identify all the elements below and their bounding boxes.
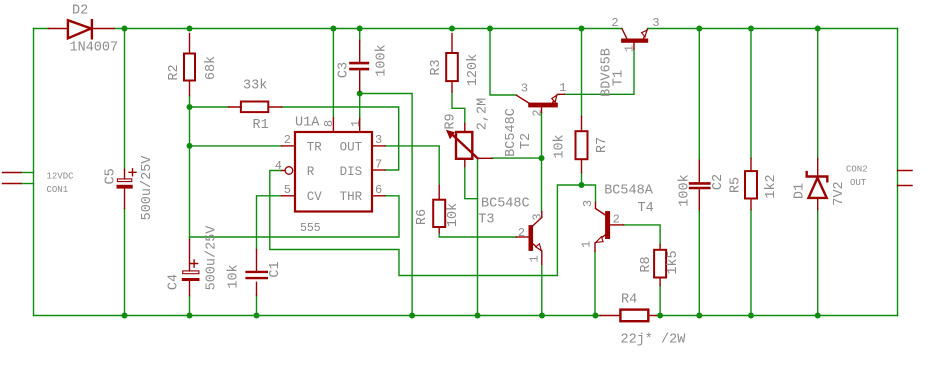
- diode D2: [49, 20, 115, 38]
- svg-text:500u/25V: 500u/25V: [140, 155, 155, 221]
- wire R7 column: [581, 29, 583, 186]
- svg-text:1: 1: [528, 255, 542, 262]
- connector CON1 pin 1: [3, 172, 22, 174]
- junction at 189,145.4: [187, 143, 193, 149]
- svg-text:10k: 10k: [227, 264, 242, 288]
- resistor R3: [446, 34, 458, 92]
- junction at 189,106.5: [187, 104, 193, 110]
- wire R3 to R9 jog: [452, 92, 465, 124]
- svg-text:3: 3: [521, 82, 528, 96]
- wire R6 bottom to T3 base: [439, 233, 516, 238]
- junction at 477,315: [475, 313, 481, 319]
- wire TR line: [190, 145, 282, 147]
- svg-text:BC548A: BC548A: [604, 184, 654, 199]
- wire C5 column: [124, 29, 126, 316]
- wire R5 column: [750, 29, 752, 316]
- wire R7 bottom node to T4 collector: [582, 185, 596, 203]
- svg-text:C4: C4: [167, 274, 182, 290]
- svg-text:100k: 100k: [678, 174, 693, 206]
- wire OUT to R6: [385, 146, 439, 186]
- wire C3 node to ground column: [360, 94, 412, 316]
- svg-text:3: 3: [531, 213, 545, 220]
- svg-text:3: 3: [375, 133, 382, 147]
- wire CON1 pin2 to column: [21, 183, 34, 185]
- svg-text:C5: C5: [104, 168, 119, 184]
- svg-text:8: 8: [322, 120, 336, 127]
- svg-text:1k5: 1k5: [666, 250, 681, 274]
- pin 2 TR stub: [282, 145, 295, 147]
- wire 555 pin1 to C3 node: [359, 91, 361, 118]
- resistor R4: [600, 310, 656, 322]
- svg-text:D1: D1: [793, 183, 808, 199]
- wire T4 base to R8: [624, 225, 661, 245]
- transistor T2 BC548C: [517, 94, 565, 112]
- svg-text:OUT: OUT: [340, 141, 363, 155]
- junction at 541.5,315: [539, 313, 545, 319]
- svg-text:2: 2: [611, 16, 618, 30]
- capacitor C1: [247, 250, 267, 296]
- wire T4 emitter to ground rail: [594, 252, 596, 316]
- svg-text:CON2: CON2: [846, 165, 868, 175]
- resistor R8: [654, 245, 666, 286]
- net GND bottom rail: [34, 315, 898, 317]
- svg-text:555: 555: [300, 222, 321, 235]
- junction at 750.5,315: [748, 313, 754, 319]
- pin 6 THR stub: [372, 195, 385, 197]
- svg-text:R9: R9: [444, 113, 459, 129]
- svg-text:TR: TR: [307, 141, 323, 155]
- connector CON2 pin 1: [898, 170, 913, 172]
- svg-text:1: 1: [559, 81, 566, 95]
- svg-text:120k: 120k: [466, 54, 481, 86]
- svg-text:5: 5: [284, 183, 291, 197]
- pin 5 CV stub: [282, 195, 295, 197]
- svg-text:BC548C: BC548C: [481, 197, 530, 212]
- junction at 124,315: [122, 313, 128, 319]
- junction at 256,315: [254, 313, 260, 319]
- svg-text:C1: C1: [268, 261, 283, 277]
- resistor R1: [229, 102, 282, 113]
- pin 7 DIS stub: [372, 169, 385, 171]
- junction at 817.2,28: [815, 26, 821, 32]
- wire T2 collector to rail: [490, 29, 517, 96]
- junction at 659.6,315: [657, 313, 663, 319]
- svg-text:68k: 68k: [204, 56, 219, 80]
- junction at 698.8,28: [696, 26, 702, 32]
- connector CON1 pin 2: [3, 183, 22, 185]
- svg-text:2: 2: [518, 226, 525, 240]
- svg-text:BC548C: BC548C: [504, 108, 519, 157]
- wire T2 base down to T3 collector: [541, 113, 543, 212]
- junction at 817.2,315: [815, 313, 821, 319]
- svg-text:R4: R4: [621, 293, 637, 308]
- junction at 411.6,315: [409, 313, 415, 319]
- junction at 451.5,28: [449, 26, 455, 32]
- wire reset pin4 net: [270, 171, 582, 276]
- wire T2 emitter to T1 base: [565, 49, 635, 94]
- svg-text:D2: D2: [72, 4, 88, 19]
- svg-text:4: 4: [275, 159, 282, 173]
- wire right column CON2: [897, 29, 899, 316]
- svg-text:500u/25V: 500u/25V: [205, 225, 220, 291]
- wire R8 bottom to rail: [659, 286, 661, 316]
- junction at 541,157.6: [539, 155, 545, 161]
- svg-text:7V2: 7V2: [832, 181, 847, 205]
- junction at 595,315: [593, 313, 599, 319]
- junction at 489.5,28: [487, 26, 493, 32]
- svg-text:1N4007: 1N4007: [70, 41, 119, 56]
- junction at 124,28: [122, 26, 128, 32]
- svg-text:C2: C2: [711, 174, 726, 190]
- diode D1 zener 7V2: [807, 159, 828, 210]
- svg-text:2: 2: [613, 213, 620, 227]
- wire R9 wiper to T2 base node: [492, 157, 541, 159]
- junction at 581,184.5: [579, 182, 585, 188]
- svg-text:R1: R1: [253, 118, 269, 133]
- junction at 332.9,28: [330, 26, 336, 32]
- transistor T3 BC548C: [516, 212, 542, 265]
- svg-text:CON1: CON1: [47, 185, 69, 195]
- svg-text:OUT: OUT: [850, 178, 867, 188]
- svg-text:1: 1: [623, 45, 637, 52]
- op-amp U1A 555 body: [295, 132, 372, 212]
- svg-text:DIS: DIS: [340, 165, 363, 179]
- svg-text:R6: R6: [415, 209, 430, 225]
- svg-text:T2: T2: [519, 133, 534, 149]
- wire C2 column: [698, 29, 700, 316]
- junction at 581,28: [579, 26, 585, 32]
- wire R9 bottom to ground column: [465, 167, 478, 199]
- svg-text:1k2: 1k2: [764, 174, 779, 198]
- pin 1 stub: [359, 118, 361, 132]
- transistor T1 BDV65B: [621, 29, 648, 50]
- wire left column CON1: [33, 29, 35, 316]
- wire CV to C1: [257, 196, 282, 316]
- svg-text:12VDC: 12VDC: [47, 172, 75, 182]
- wire R1 to DIS net: [190, 107, 399, 170]
- junction at 698.8,315: [696, 313, 702, 319]
- svg-text:2: 2: [531, 109, 545, 116]
- svg-text:33k: 33k: [243, 79, 267, 94]
- svg-text:22j* /2W: 22j* /2W: [621, 333, 687, 348]
- svg-text:3: 3: [652, 16, 659, 30]
- wire ground column x477: [477, 158, 479, 315]
- svg-text:1: 1: [579, 241, 593, 248]
- svg-text:10k: 10k: [446, 203, 461, 227]
- svg-text:1: 1: [349, 120, 363, 127]
- pin 8 stub: [332, 118, 334, 132]
- svg-text:R5: R5: [729, 177, 744, 193]
- wire THR return line: [190, 196, 400, 237]
- resistor R5: [745, 159, 757, 210]
- resistor R2: [184, 34, 195, 96]
- junction at 750.5,28: [748, 26, 754, 32]
- svg-text:R2: R2: [167, 64, 182, 80]
- net V+ top rail: [34, 28, 898, 30]
- svg-text:R3: R3: [429, 59, 444, 75]
- resistor R7: [576, 116, 588, 172]
- junction at 189,28: [187, 26, 193, 32]
- svg-text:7: 7: [375, 158, 382, 172]
- svg-text:6: 6: [375, 183, 382, 197]
- wire CON1 pin1 to column: [21, 172, 34, 174]
- wire R2 C4 column: [189, 96, 191, 316]
- resistor R6: [433, 186, 445, 233]
- svg-text:10k: 10k: [553, 134, 568, 158]
- svg-text:T1: T1: [612, 70, 627, 86]
- svg-text:CV: CV: [307, 190, 323, 204]
- junction at 359.2,93: [357, 91, 363, 97]
- junction at 359.2,28: [357, 26, 363, 32]
- wire rail to C3 top: [359, 29, 361, 41]
- pin 4 R stub with bubble: [282, 167, 293, 175]
- svg-text:100k: 100k: [375, 44, 390, 76]
- svg-text:2,2M: 2,2M: [476, 98, 491, 130]
- capacitor C5 (electrolytic): [117, 169, 137, 209]
- svg-text:3: 3: [581, 200, 595, 207]
- connector CON2 pin 2: [898, 185, 913, 187]
- wire D1 column: [817, 29, 819, 316]
- svg-text:C3: C3: [337, 62, 352, 78]
- svg-text:T4: T4: [638, 201, 654, 216]
- capacitor C4 (electrolytic): [182, 240, 200, 296]
- capacitor C3: [351, 40, 368, 91]
- svg-text:T3: T3: [478, 213, 494, 228]
- wire 555 pin8 to rail: [332, 29, 334, 119]
- svg-text:THR: THR: [340, 190, 363, 204]
- svg-text:R7: R7: [595, 137, 610, 153]
- pin 3 OUT stub: [372, 145, 385, 147]
- potentiometer R9: [446, 124, 492, 167]
- wire T3 emitter to ground rail: [541, 264, 543, 315]
- svg-text:2: 2: [284, 133, 291, 147]
- capacitor C2: [690, 160, 709, 209]
- svg-text:U1A: U1A: [295, 116, 320, 131]
- junction at 189,315: [187, 313, 193, 319]
- svg-text:R8: R8: [639, 256, 654, 272]
- svg-text:R: R: [307, 165, 315, 179]
- transistor T4 BC548A: [595, 203, 624, 252]
